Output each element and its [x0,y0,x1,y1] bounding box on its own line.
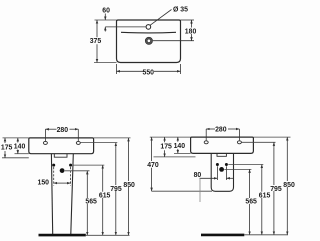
dimension 565 (left view) [86,171,88,236]
svg-text:565: 565 [85,198,97,205]
svg-text:280: 280 [57,127,69,134]
dimension 565 (right view) [249,169,251,234]
leader line to Ø 35 label [150,10,172,26]
fixing hole right (right view deck) [237,141,241,144]
supply hole left (semi-pedestal) [216,163,219,166]
175 lower extension line [2,157,29,159]
svg-text:795: 795 [110,186,122,193]
140 lower extension line [15,153,29,155]
semi-pedestal outline [211,153,233,191]
svg-text:150: 150 [38,180,50,187]
dimension 375 (plan depth) [96,20,98,63]
extension line fixing hole to 795 [81,142,118,144]
label 280 (right view) [215,126,228,133]
dimension 140 (right view) [177,137,179,153]
extension line waste outlet to 565 (right view) [224,168,251,170]
extension line basin top to 850 (right view) [253,136,290,138]
supply hole left (pedestal) [52,164,55,167]
svg-text:140: 140 [14,144,26,151]
fixing hole left (left view deck) [43,141,47,144]
svg-text:Ø 35: Ø 35 [173,7,188,14]
175 lower extension (right view) [154,156,196,158]
svg-text:175: 175 [160,144,172,151]
basin outline (left view) [29,138,94,154]
dimension 175 (right view) [164,137,166,157]
dimension 180 (drain from rear edge) [153,20,194,41]
dimension 550 (plan width) [117,64,181,74]
dimension 850 (right view) [286,137,288,235]
basin top edge extension to the left (right view) [150,136,191,138]
dimension 615 (left view) [102,165,104,235]
fixing hole right (left view deck) [76,141,80,144]
svg-text:850: 850 [283,182,295,189]
extension line supply to 615 [73,164,105,166]
svg-text:140: 140 [174,143,186,150]
waste outlet (semi-pedestal) [219,167,224,172]
basin outline (plan view) [117,20,181,63]
top edge extension line (left) [95,19,117,21]
dimension 80 (supply hole spacing) [200,166,234,180]
basin back ledge line (plan) [121,31,176,34]
svg-text:470: 470 [147,162,159,169]
dimension 850 (left view) [128,138,130,235]
dimension 140 (left view) [17,138,19,154]
waste outlet (pedestal) [60,168,65,173]
svg-text:615: 615 [259,193,271,200]
label 280 (left view) [57,126,70,133]
svg-text:60: 60 [102,8,110,15]
floor line (right view) [201,234,244,237]
svg-text:280: 280 [215,127,227,134]
dimension 280 (right view hole spacing) [206,129,239,140]
extension line basin top to 850 [94,137,131,139]
svg-text:180: 180 [185,29,197,36]
floor extension line (right view) [244,234,288,236]
svg-text:850: 850 [123,182,135,189]
drain hole (plan) [146,38,151,43]
svg-text:375: 375 [90,38,102,45]
dimension 795 (left view) [115,143,117,236]
svg-text:550: 550 [143,70,155,77]
semi-pedestal trap recess [217,153,226,156]
svg-text:80: 80 [194,172,202,179]
dimension 795 (right view) [273,142,275,235]
extension line fixing hole to 795 (right view) [242,141,276,143]
dimension 280 (left view hole spacing) [45,129,78,141]
tap hole Ø35 (plan) [146,25,151,30]
dimension 60 (tap hole from rear edge) [105,14,146,32]
supply hole right (pedestal) [69,164,72,167]
bottom edge extension line (left) [94,62,117,64]
dimension 615 (right view) [261,165,263,235]
fixing hole left (right view deck) [204,141,208,144]
svg-text:175: 175 [1,145,13,152]
dimension 175 (left view) [4,138,6,158]
supply hole right (semi-pedestal) [225,163,228,166]
dimension 150 (supply hole spacing) [54,167,71,186]
label 180 [185,28,197,35]
svg-text:565: 565 [245,198,257,205]
pedestal right edge [71,154,74,234]
extension line waste outlet to 565 [65,170,90,172]
140 lower extension (right view) [174,152,191,154]
svg-text:795: 795 [270,186,282,193]
hidden waste line below 80 dim [199,178,201,202]
svg-text:615: 615 [99,193,111,200]
dimension 470 (basin top to semi-pedestal bottom) [151,137,153,191]
basin top edge extension to the left [3,137,29,139]
pedestal left edge [51,154,52,234]
pedestal trap recess [54,154,67,158]
extension line supply to 615 (right view) [228,164,263,166]
basin outline (right view) [191,137,254,153]
floor extension line (left view) [86,234,130,236]
470 lower extension line [152,190,212,192]
floor line (left view) [39,234,86,237]
